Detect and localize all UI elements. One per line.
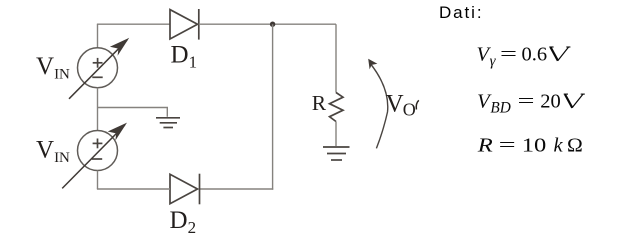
svg-text:D2: D2 (170, 207, 197, 237)
wire top rail left segment (97, 23, 170, 25)
clipped U fragment of VOUT (416, 100, 419, 109)
wire resistor to ground (335, 122, 337, 147)
svg-text:VIN: VIN (36, 53, 70, 83)
wire mid ground tap (98, 108, 168, 117)
source VIN upper plus (93, 58, 103, 68)
svg-text:VIN: VIN (36, 137, 70, 167)
equation V_BD = 20V (477, 91, 585, 117)
svg-text:R: R (312, 91, 327, 115)
wire output branch vertical (335, 24, 337, 92)
source VIN lower arrow (62, 125, 125, 188)
svg-text:Ω: Ω (567, 134, 583, 156)
diode D1 (170, 9, 199, 40)
svg-text:k: k (554, 134, 564, 156)
diode D2 (170, 174, 200, 205)
svg-text:=: = (518, 91, 535, 113)
node junction dot (270, 22, 275, 27)
resistor R zigzag (330, 93, 344, 122)
svg-text:γ: γ (490, 54, 497, 70)
svg-text:0.6: 0.6 (522, 44, 548, 66)
wire bottom rail right segment (200, 188, 273, 190)
wire top-left vertical from upper source to top rail (97, 24, 99, 48)
equation R = 10 kOhm (477, 134, 583, 156)
source VIN lower circle (78, 131, 118, 171)
source VIN upper arrow (69, 40, 127, 99)
wire top rail right segment (199, 23, 336, 25)
wire right loop vertical (272, 24, 274, 190)
source VIN upper minus (92, 76, 102, 78)
wire between sources (97, 88, 99, 131)
svg-text:=: = (500, 44, 517, 66)
ground under resistor (323, 147, 350, 160)
ground mid (156, 118, 180, 128)
source VIN lower plus (93, 139, 103, 149)
source VIN upper circle (78, 48, 118, 88)
svg-text:Dati:: Dati: (439, 3, 483, 22)
svg-text:10: 10 (522, 134, 547, 156)
arc arrow VOUT (370, 63, 388, 149)
svg-text:BD: BD (490, 100, 510, 117)
svg-text:R: R (477, 134, 494, 156)
wire lower source to bottom rail (97, 171, 99, 190)
svg-text:D1: D1 (171, 42, 198, 72)
wire bottom rail left segment (97, 188, 170, 190)
svg-text:20: 20 (540, 91, 561, 113)
svg-text:VO: VO (386, 91, 416, 120)
source VIN lower minus (92, 158, 102, 160)
svg-text:=: = (499, 134, 516, 156)
equation V_gamma = 0.6V (477, 44, 571, 70)
